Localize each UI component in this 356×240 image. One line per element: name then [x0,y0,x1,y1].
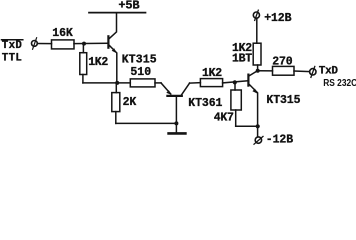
wire 16K to base of V1 [74,42,108,44]
transistor V3 KT315 [248,71,300,137]
resistor 510 [130,66,155,87]
wire 510 to V2 emitter [155,82,161,84]
svg-text:16K: 16K [52,27,73,40]
wire input to 16K [37,43,51,45]
svg-text:KT315: KT315 [266,94,300,107]
svg-text:RS 232C: RS 232C [323,78,356,89]
resistor 1K2 R2 (vertical) [80,44,109,83]
wire bottom (2K to ground node) [116,122,177,124]
svg-text:270: 270 [272,56,293,69]
resistor 2K (vertical) [112,83,137,124]
svg-text:2K: 2K [123,96,137,109]
output terminal TxD RS232C [310,66,356,89]
svg-text:KT315: KT315 [122,53,157,66]
resistor 270 [272,56,294,76]
label TxD (overline) / TTL [2,40,23,65]
node F (junction 4K7/emitter) [256,124,260,128]
resistor 1K2 1BT (vertical) [232,18,261,70]
node B (junction emitter/2K) [115,81,119,85]
node A (junction 16K/1K2) [82,42,86,46]
svg-text:KT361: KT361 [188,97,222,110]
node C (ground junction) [174,121,178,125]
svg-text:-12B: -12B [266,134,293,147]
svg-text:4K7: 4K7 [214,111,234,124]
power rail +5B [89,0,146,13]
wire 270 to output terminal [294,70,310,73]
resistor 16K [52,27,75,49]
svg-text:TxD: TxD [2,40,23,52]
svg-text:510: 510 [130,66,151,79]
resistor 4K7 (vertical) [214,82,258,126]
svg-text:1K2: 1K2 [88,56,108,69]
resistor 1K2 R5 (horizontal) [200,67,222,86]
wire node E to 270 [258,70,273,72]
svg-text:+12B: +12B [264,12,291,25]
svg-text:+5B: +5B [118,0,139,13]
node E (junction collector/270) [256,69,260,73]
node D (junction 1K2/4K7) [233,80,237,84]
transistor V2 KT361 [161,83,223,124]
ground [169,123,186,133]
wire 1K2 to base of V3 [223,81,248,83]
wire mid bus (1K2 bottom to 510) [83,82,130,84]
svg-text:1K2: 1K2 [202,67,222,80]
svg-text:1BT: 1BT [232,52,252,65]
terminal -12B [254,134,293,147]
terminal +12B [253,10,291,25]
wire V2 collector to 1K2 [190,82,201,84]
svg-text:TxD: TxD [319,66,339,78]
input terminal X1 [32,38,38,49]
svg-text:TTL: TTL [2,52,22,64]
transistor V1 KT315 [108,13,156,83]
